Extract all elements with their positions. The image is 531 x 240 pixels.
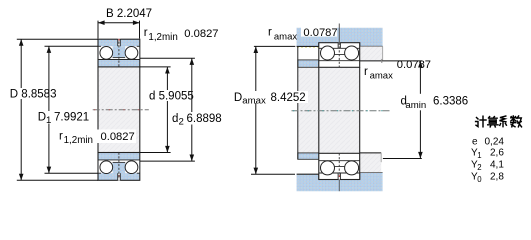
svg-text:6.3386: 6.3386 [433, 96, 468, 108]
svg-text:1: 1 [46, 115, 51, 126]
svg-text:0.0787: 0.0787 [303, 27, 337, 39]
svg-text:0.0827: 0.0827 [101, 131, 135, 143]
svg-text:1: 1 [477, 151, 481, 160]
svg-text:B 2.2047: B 2.2047 [106, 8, 152, 20]
svg-text:r: r [268, 27, 272, 39]
svg-text:1,2min: 1,2min [148, 32, 177, 43]
svg-text:0.0787: 0.0787 [397, 59, 431, 71]
svg-text:8.4252: 8.4252 [271, 92, 306, 104]
svg-text:amin: amin [405, 100, 426, 111]
svg-text:amax: amax [242, 96, 266, 107]
svg-text:0: 0 [477, 175, 482, 184]
svg-text:2: 2 [477, 163, 481, 172]
svg-text:amax: amax [370, 70, 393, 81]
svg-text:2,8: 2,8 [490, 171, 504, 182]
svg-text:7.9921: 7.9921 [54, 111, 89, 123]
svg-text:r: r [364, 66, 368, 78]
svg-text:D: D [38, 111, 46, 123]
svg-text:r: r [144, 27, 148, 39]
svg-text:0.0827: 0.0827 [184, 28, 218, 40]
svg-text:e: e [472, 137, 478, 148]
svg-text:D 8.8583: D 8.8583 [10, 89, 57, 101]
svg-text:D: D [234, 92, 242, 104]
svg-text:2: 2 [179, 117, 184, 128]
svg-text:d 5.9055: d 5.9055 [149, 91, 194, 103]
svg-text:r: r [59, 131, 63, 143]
svg-text:d: d [172, 113, 178, 125]
svg-text:4,1: 4,1 [490, 159, 504, 170]
svg-text:0,24: 0,24 [485, 137, 505, 148]
svg-text:2,6: 2,6 [490, 147, 504, 158]
svg-text:6.8898: 6.8898 [187, 113, 222, 125]
svg-text:1,2min: 1,2min [64, 135, 93, 146]
svg-text:amax: amax [274, 32, 297, 43]
